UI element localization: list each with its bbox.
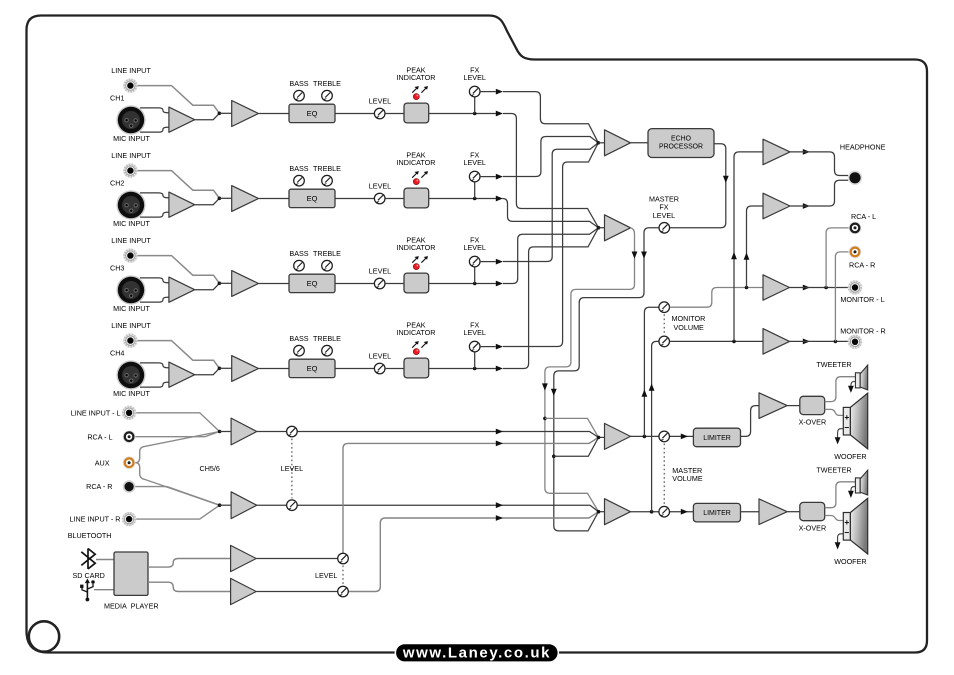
- svg-text:LEVEL: LEVEL: [369, 351, 391, 360]
- node monitor R tap: [650, 510, 654, 514]
- wire CH3 level to peak block: [385, 283, 404, 285]
- wire CH4 fx level out: [480, 346, 496, 348]
- svg-text:BLUETOOTH: BLUETOOTH: [68, 531, 112, 540]
- wire CH3 fx send to fx bus: [503, 143, 598, 262]
- node CH3 merge junction: [218, 282, 222, 286]
- wire CH4 mic cold lead: [140, 382, 169, 387]
- wire CH3 preamp out to merge: [195, 283, 220, 289]
- svg-text:WOOFER: WOOFER: [834, 557, 866, 566]
- CH3 main out arrow: [496, 281, 503, 287]
- svg-text:LINE INPUT - L: LINE INPUT - L: [71, 408, 121, 417]
- potentiometer master fx level: [659, 223, 670, 234]
- node CH2 merge junction: [218, 197, 222, 201]
- potentiometer CH1 treble: [322, 90, 333, 101]
- op-amp monitor R amp: [763, 329, 790, 355]
- wire CH3 amp to EQ: [259, 283, 290, 285]
- EQ block CH4: [289, 359, 335, 377]
- wire CH3 EQ to level pot: [335, 283, 374, 285]
- svg-text:INDICATOR: INDICATOR: [397, 73, 436, 82]
- wire usb to media player: [94, 589, 114, 591]
- node R sum junction: [597, 510, 601, 514]
- wire fx bus to fx amp: [598, 142, 604, 144]
- wire CH2 merge to channel amp: [219, 197, 231, 199]
- RCA - R output jack: [849, 246, 862, 259]
- node CH4 fx tap junction: [473, 367, 477, 371]
- wire fx return to LR buses: [554, 228, 659, 531]
- svg-text:LIMITER: LIMITER: [703, 510, 731, 517]
- wire CH2 fx level out: [480, 176, 496, 178]
- potentiometer ch5/6 level R: [287, 500, 298, 511]
- svg-text:BASS: BASS: [289, 334, 308, 343]
- wire ch56 R merge to amp: [220, 504, 232, 506]
- CH2 mic XLR connector: [116, 190, 145, 219]
- wire media R out: [148, 582, 231, 591]
- headphone R up arrow: [744, 253, 750, 260]
- svg-text:LEVEL: LEVEL: [369, 181, 391, 190]
- wire CH1 EQ to level pot: [335, 113, 374, 115]
- wire CH1 mic cold lead: [140, 127, 169, 132]
- svg-text:LEVEL: LEVEL: [464, 243, 486, 252]
- svg-text:LEVEL: LEVEL: [464, 73, 486, 82]
- wire CH3 main out to mix bus: [503, 228, 599, 284]
- wire CH4 mic hot lead: [140, 363, 169, 368]
- CH4 line input jack: [123, 333, 137, 347]
- LINE INPUT - L jack: [122, 406, 136, 420]
- svg-text:LEVEL: LEVEL: [315, 571, 337, 580]
- node fx return tap to L bus: [552, 455, 556, 459]
- potentiometer monitor volume L: [659, 302, 670, 313]
- svg-text:CH1: CH1: [110, 94, 124, 103]
- wire bluetooth to media player: [96, 559, 114, 561]
- svg-text:X-OVER: X-OVER: [799, 524, 827, 533]
- op-amp CH5/6 L amp: [231, 418, 257, 445]
- wire CH4 peak block to fx tap: [429, 368, 496, 370]
- svg-text:SD CARD: SD CARD: [73, 571, 105, 580]
- fx return bus down arrow: [551, 389, 557, 396]
- node CH1 merge junction: [218, 112, 222, 116]
- main mix bus down arrow: [542, 383, 548, 390]
- svg-text:MIC INPUT: MIC INPUT: [113, 134, 150, 143]
- CH2 main out arrow: [496, 196, 503, 202]
- op-amp CH2 mic preamp: [169, 192, 195, 217]
- svg-text:LEVEL: LEVEL: [464, 158, 486, 167]
- wire CH1 amp to EQ: [259, 113, 290, 115]
- wire CH2 EQ to level pot: [335, 198, 374, 200]
- limiter block R: [693, 503, 740, 522]
- svg-text:CH4: CH4: [110, 349, 124, 358]
- wire rca L to sum: [135, 432, 219, 437]
- wire monitor L amp to jack: [790, 287, 849, 289]
- node ch5/6 R merge junction: [218, 503, 222, 507]
- HEADPHONE output jack: [848, 171, 862, 185]
- node ch5/6 L merge junction: [218, 430, 222, 434]
- wire CH3 mic cold lead: [140, 297, 169, 302]
- CH1 mic XLR connector: [116, 105, 145, 134]
- node fx bus junction: [597, 141, 601, 145]
- wire R amp to limiter: [631, 511, 694, 513]
- Laney web badge: [395, 643, 559, 663]
- monitor L arrow: [803, 285, 810, 291]
- svg-text:EQ: EQ: [307, 364, 318, 373]
- svg-text:LINE INPUT - R: LINE INPUT - R: [70, 515, 121, 524]
- svg-text:VOLUME: VOLUME: [674, 323, 705, 332]
- wire CH2 main out to mix bus: [503, 199, 599, 228]
- svg-text:+: +: [844, 517, 849, 527]
- wire CH2 fx send to fx bus: [503, 137, 598, 177]
- monitor volume gang dotted link: [663, 314, 665, 334]
- LED CH3 peak indicator: [413, 264, 419, 270]
- CH3 peak overload arrows: [412, 256, 419, 263]
- master R arrow: [681, 509, 688, 515]
- op-amp CH3 mic preamp: [169, 277, 195, 302]
- wire headphone R feed riser: [747, 206, 764, 288]
- wire CH4 main out to mix bus: [503, 228, 599, 369]
- CH2 peak overload arrows: [412, 171, 419, 178]
- ch56 L arrow: [496, 429, 503, 435]
- potentiometer CH2 level: [374, 193, 385, 204]
- LED CH4 peak indicator: [413, 349, 419, 355]
- op-amp power amp R: [759, 499, 787, 525]
- wire CH2 preamp out to merge: [195, 198, 220, 204]
- svg-text:EQ: EQ: [307, 109, 318, 118]
- wire mix bus to mix amp: [599, 227, 605, 229]
- wire CH1 preamp out to merge: [195, 113, 220, 119]
- media player block: [114, 552, 148, 595]
- CH4 main out arrow: [496, 366, 503, 372]
- main mix down arrow: [632, 252, 638, 259]
- node headphone L tap: [732, 340, 736, 344]
- potentiometer CH4 level: [374, 363, 385, 374]
- wire monitor R amp to jack: [790, 340, 849, 342]
- wire headphone R amp to jack: [790, 180, 849, 206]
- svg-text:MIC INPUT: MIC INPUT: [113, 389, 150, 398]
- potentiometer CH4 bass: [294, 345, 305, 356]
- MONITOR - L output jack: [848, 280, 862, 294]
- node main mix tap to L bus: [543, 417, 547, 421]
- EQ block CH1: [289, 104, 335, 122]
- ch5/6 level gang dotted link: [291, 439, 293, 499]
- node mix bus junction: [597, 226, 601, 230]
- wire L sum tip: [599, 436, 605, 438]
- wire CH2 peak block to fx tap: [429, 198, 496, 200]
- master volume gang dotted link: [663, 444, 665, 505]
- op-amp CH1 channel amp: [232, 101, 259, 127]
- CH2 line input jack: [123, 163, 137, 177]
- svg-text:LEVEL: LEVEL: [653, 211, 675, 220]
- wire media R amp to level: [256, 591, 338, 593]
- wire CH1 fx tap riser: [474, 97, 476, 114]
- op-amp power amp L: [759, 393, 787, 419]
- echo processor block U-FX: [648, 129, 714, 158]
- svg-text:BASS: BASS: [289, 164, 308, 173]
- wire CH2 amp to EQ: [259, 198, 290, 200]
- ch56 R arrow: [496, 502, 503, 508]
- x-over block L: [800, 396, 825, 414]
- wire CH4 fx tap riser: [474, 352, 476, 369]
- woofer R polarity arrow: [838, 534, 844, 544]
- op-amp headphone L amp: [763, 139, 790, 165]
- wire CH1 mic hot lead: [140, 108, 169, 113]
- node CH2 fx tap junction: [473, 197, 477, 201]
- svg-text:LINE INPUT: LINE INPUT: [111, 66, 151, 75]
- wire xover R to tweeter: [825, 482, 856, 508]
- svg-text:RCA - L: RCA - L: [87, 432, 112, 441]
- potentiometer ch5/6 level L: [287, 426, 298, 437]
- potentiometer CH1 bass: [294, 90, 305, 101]
- tweeter speaker L: [855, 365, 867, 390]
- wire aux to R sum: [135, 463, 219, 506]
- svg-text:RCA - R: RCA - R: [849, 260, 875, 269]
- wire CH2 mic cold lead: [140, 212, 169, 217]
- monitor L up arrow: [642, 390, 648, 397]
- wire main mix out to LR buses: [545, 228, 635, 512]
- wire limiter L to power amp: [741, 406, 760, 437]
- potentiometer CH3 fx level: [469, 256, 480, 267]
- headphone L arrow: [803, 149, 810, 155]
- svg-text:MONITOR: MONITOR: [672, 314, 706, 323]
- peak indicator block CH1: [404, 103, 429, 123]
- wire power amp L to xover: [787, 405, 800, 407]
- wire CH4 line input to merge: [138, 341, 220, 369]
- op-amp master L summing amp: [605, 423, 631, 449]
- potentiometer CH4 treble: [322, 345, 333, 356]
- potentiometer CH2 fx level: [469, 171, 480, 182]
- svg-text:INDICATOR: INDICATOR: [397, 158, 436, 167]
- USB symbol: [80, 579, 95, 602]
- node rca R tap: [834, 340, 838, 344]
- CH1 main out arrow: [496, 111, 503, 117]
- svg-text:TREBLE: TREBLE: [313, 79, 341, 88]
- wire CH3 peak block to fx tap: [429, 283, 496, 285]
- CH3 line input jack: [123, 248, 137, 262]
- svg-text:−: −: [844, 422, 849, 432]
- echo return down arrow: [723, 176, 729, 183]
- CH2 fx send arrow: [496, 174, 503, 180]
- svg-text:INDICATOR: INDICATOR: [397, 243, 436, 252]
- LED CH2 peak indicator: [413, 179, 419, 185]
- EQ block CH3: [289, 274, 335, 292]
- wire fx return tap to L sum: [554, 437, 599, 456]
- svg-text:VOLUME: VOLUME: [672, 474, 703, 483]
- svg-text:ECHO: ECHO: [671, 135, 692, 142]
- svg-text:MONITOR - L: MONITOR - L: [840, 295, 884, 304]
- wire CH2 fx tap riser: [474, 182, 476, 199]
- monitor R up arrow: [649, 384, 655, 391]
- x-over block R: [800, 502, 825, 520]
- bottom-left corner circle: [29, 621, 59, 651]
- tweeter R polarity arrow: [851, 487, 856, 493]
- peak indicator block CH4: [404, 358, 429, 378]
- op-amp media R amp: [231, 578, 257, 604]
- wire CH1 merge to channel amp: [219, 112, 231, 114]
- LED CH1 peak indicator: [413, 94, 419, 100]
- tweeter speaker R: [855, 470, 867, 495]
- svg-text:MONITOR - R: MONITOR - R: [840, 326, 885, 335]
- wire power amp R to xover: [787, 511, 800, 513]
- wire limiter R to power amp: [741, 511, 760, 513]
- CH4 fx send arrow: [496, 344, 503, 350]
- wire line R to sum: [136, 505, 219, 519]
- op-amp master R summing amp: [605, 499, 631, 525]
- wire xover L to tweeter: [825, 377, 856, 402]
- EQ block CH2: [289, 189, 335, 207]
- headphone L up arrow: [731, 252, 737, 259]
- op-amp FX summing amp: [605, 130, 631, 156]
- svg-text:X-OVER: X-OVER: [799, 418, 827, 427]
- svg-text:MEDIA PLAYER: MEDIA PLAYER: [104, 601, 159, 610]
- peak indicator block CH3: [404, 273, 429, 293]
- AUX input jack: [123, 456, 136, 469]
- svg-text:BASS: BASS: [289, 79, 308, 88]
- wire R sum tip: [599, 511, 605, 513]
- potentiometer CH2 treble: [322, 175, 333, 186]
- node CH4 merge junction: [218, 367, 222, 371]
- wire CH2 line input to merge: [138, 171, 220, 199]
- wire main mix tap to L sum: [545, 418, 599, 437]
- wire CH1 line input to merge: [138, 86, 220, 114]
- op-amp CH4 channel amp: [232, 356, 259, 382]
- op-amp CH5/6 R amp: [231, 492, 257, 519]
- svg-text:LIMITER: LIMITER: [703, 435, 731, 442]
- wire CH4 EQ to level pot: [335, 368, 374, 370]
- svg-text:BASS: BASS: [289, 249, 308, 258]
- potentiometer CH3 bass: [294, 260, 305, 271]
- svg-text:RCA - R: RCA - R: [86, 482, 112, 491]
- potentiometer master volume L: [659, 431, 670, 442]
- op-amp media L amp: [231, 545, 257, 571]
- wire headphone L feed riser: [734, 152, 763, 342]
- wire line L to sum: [136, 413, 219, 432]
- svg-text:LEVEL: LEVEL: [369, 96, 391, 105]
- woofer speaker R: [843, 498, 867, 554]
- wire CH4 level to peak block: [385, 368, 404, 370]
- svg-text:−: −: [844, 527, 849, 537]
- potentiometer CH2 bass: [294, 175, 305, 186]
- wire CH3 line input to merge: [138, 256, 220, 284]
- wire CH3 fx tap riser: [474, 267, 476, 284]
- svg-text:LEVEL: LEVEL: [464, 328, 486, 337]
- svg-text:HEADPHONE: HEADPHONE: [840, 142, 886, 151]
- wire xover R to woofer: [825, 516, 844, 521]
- CH3 mic XLR connector: [116, 275, 145, 304]
- node CH1 fx tap junction: [473, 112, 477, 116]
- CH1 fx send arrow: [496, 89, 503, 95]
- svg-text:MIC INPUT: MIC INPUT: [113, 219, 150, 228]
- potentiometer CH3 treble: [322, 260, 333, 271]
- svg-text:EQ: EQ: [307, 279, 318, 288]
- svg-text:PROCESSOR: PROCESSOR: [659, 144, 703, 151]
- wire media L amp to level: [256, 558, 338, 560]
- wire ch56 L merge to amp: [220, 431, 232, 433]
- wire CH4 fx send to fx bus: [503, 143, 598, 347]
- media L arrow: [496, 441, 503, 447]
- svg-text:AUX: AUX: [95, 458, 110, 467]
- wire CH4 merge to channel amp: [219, 367, 231, 369]
- svg-text:TREBLE: TREBLE: [313, 164, 341, 173]
- node headphone R tap: [745, 286, 749, 290]
- woofer L polarity arrow: [838, 429, 844, 439]
- wire CH2 level to peak block: [385, 198, 404, 200]
- potentiometer media level R: [338, 586, 349, 597]
- svg-text:CH5/6: CH5/6: [200, 464, 220, 473]
- wire ch56 R to mix R: [257, 505, 599, 512]
- op-amp main mix summing amp: [605, 215, 631, 241]
- op-amp monitor L amp: [763, 275, 790, 300]
- wire media R to mix R: [348, 512, 598, 592]
- wire CH3 merge to channel amp: [219, 282, 231, 284]
- wire CH1 peak block to fx tap: [429, 113, 496, 115]
- CH4 mic XLR connector: [116, 360, 145, 389]
- wire L amp to limiter: [631, 435, 694, 437]
- svg-text:INDICATOR: INDICATOR: [397, 328, 436, 337]
- wire echo processor out down to master fx level: [670, 144, 726, 228]
- wire monitor R tap riser: [652, 341, 659, 511]
- LINE INPUT - R jack: [122, 512, 136, 526]
- RCA - L input jack: [123, 430, 136, 443]
- wire CH1 fx level out: [480, 91, 496, 93]
- svg-text:LINE INPUT: LINE INPUT: [111, 151, 151, 160]
- RCA - L output jack: [849, 222, 862, 235]
- op-amp headphone R amp: [763, 193, 790, 219]
- op-amp CH2 channel amp: [232, 186, 259, 212]
- bluetooth symbol: [81, 549, 95, 570]
- svg-text:RCA - L: RCA - L: [851, 212, 876, 221]
- node L sum junction: [597, 436, 601, 440]
- wire ch56 L to mix L: [257, 432, 599, 438]
- woofer speaker L: [843, 393, 867, 449]
- headphone R arrow: [803, 203, 810, 209]
- node CH3 fx tap junction: [473, 282, 477, 286]
- tweeter L polarity arrow: [851, 382, 856, 388]
- svg-text:TWEETER: TWEETER: [816, 360, 851, 369]
- svg-text:WOOFER: WOOFER: [834, 452, 866, 461]
- wire CH1 level to peak block: [385, 113, 404, 115]
- svg-text:TWEETER: TWEETER: [816, 465, 851, 474]
- svg-text:+: +: [844, 412, 849, 422]
- wire CH1 main out to mix bus: [503, 114, 599, 228]
- master L arrow: [681, 434, 688, 440]
- svg-text:CH2: CH2: [110, 179, 124, 188]
- peak indicator block CH2: [404, 188, 429, 208]
- svg-text:LINE INPUT: LINE INPUT: [111, 236, 151, 245]
- wire media L out: [148, 559, 231, 568]
- potentiometer CH1 level: [374, 108, 385, 119]
- wire CH4 amp to EQ: [259, 368, 290, 370]
- svg-text:CH3: CH3: [110, 264, 124, 273]
- wire aux to L sum: [135, 432, 219, 463]
- wire headphone L amp to jack: [790, 152, 849, 176]
- CH3 fx send arrow: [496, 259, 503, 265]
- monitor R arrow: [803, 339, 810, 345]
- CH4 peak overload arrows: [412, 341, 419, 348]
- potentiometer media level L: [338, 553, 349, 564]
- wire CH1 fx send to fx bus: [503, 92, 598, 143]
- potentiometer master volume R: [659, 506, 670, 517]
- wire fx amp to echo processor: [631, 142, 649, 144]
- svg-text:TREBLE: TREBLE: [313, 334, 341, 343]
- potentiometer CH1 fx level: [469, 86, 480, 97]
- wire xover L to woofer: [825, 409, 844, 415]
- CH1 peak overload arrows: [412, 86, 419, 93]
- op-amp CH1 mic preamp: [169, 107, 195, 132]
- svg-text:LINE INPUT: LINE INPUT: [111, 321, 151, 330]
- wire rca R record feed: [835, 252, 848, 342]
- svg-text:LEVEL: LEVEL: [369, 266, 391, 275]
- limiter block L: [693, 428, 740, 447]
- node rca L tap: [824, 286, 828, 290]
- wire CH3 mic hot lead: [140, 278, 169, 283]
- potentiometer monitor volume R: [659, 336, 670, 347]
